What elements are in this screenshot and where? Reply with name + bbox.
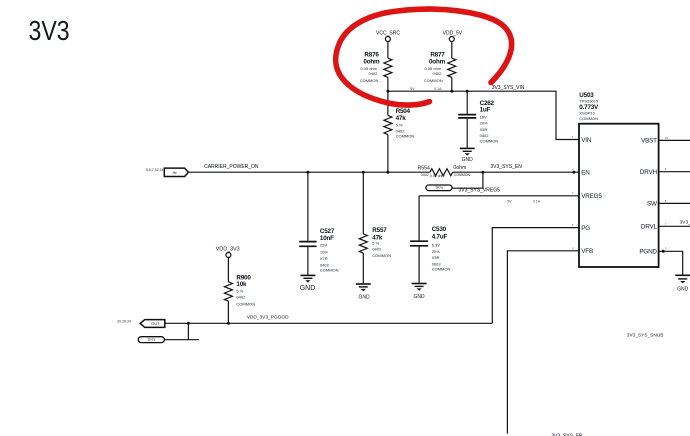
resistor R557 bbox=[359, 172, 391, 283]
wire VDD_3V3_PGOOD bbox=[165, 315, 493, 324]
junction at EN pin bbox=[573, 171, 576, 174]
svg-text:3V3_SYS_EN: 3V3_SYS_EN bbox=[490, 164, 522, 170]
svg-text:VCC_SRC: VCC_SRC bbox=[376, 31, 400, 37]
testpoint TP74 bbox=[426, 185, 452, 191]
svg-text:XSOP10: XSOP10 bbox=[579, 111, 595, 116]
pin VREG5 bbox=[572, 191, 602, 200]
svg-text:0.1A: 0.1A bbox=[533, 199, 541, 203]
resistor R877 bbox=[424, 51, 456, 83]
svg-text:VFB: VFB bbox=[581, 248, 593, 255]
svg-text:OUT: OUT bbox=[151, 321, 160, 326]
svg-text:10nF: 10nF bbox=[320, 235, 334, 242]
svg-text:5 %: 5 % bbox=[396, 123, 403, 128]
svg-text:X7R: X7R bbox=[320, 256, 328, 261]
svg-text:25V: 25V bbox=[320, 242, 327, 247]
svg-text:0402: 0402 bbox=[480, 133, 490, 138]
svg-text:IN: IN bbox=[173, 170, 177, 175]
svg-text:X5R: X5R bbox=[480, 127, 488, 132]
IC U503 ref labels bbox=[579, 92, 599, 121]
wire VREG5 line bbox=[419, 196, 579, 204]
wire R877 to rail bbox=[451, 77, 453, 91]
svg-text:0.1A: 0.1A bbox=[434, 87, 442, 91]
svg-text:0.05 ohm: 0.05 ohm bbox=[430, 174, 445, 178]
svg-text:R554: R554 bbox=[417, 165, 430, 171]
ground for C530 bbox=[412, 284, 427, 301]
svg-text:5V: 5V bbox=[410, 87, 415, 91]
capacitor C262 bbox=[458, 91, 498, 147]
resistor R876 bbox=[360, 51, 392, 83]
wire 3V3_SYS_VIN rail bbox=[388, 85, 579, 140]
svg-text:TP74: TP74 bbox=[435, 186, 443, 190]
svg-text:GND: GND bbox=[300, 285, 316, 292]
svg-text:EN: EN bbox=[581, 169, 590, 176]
ground for C262 bbox=[460, 148, 475, 163]
wire VFB net bbox=[507, 251, 579, 434]
pin VIN bbox=[572, 135, 592, 144]
svg-text:DRVH: DRVH bbox=[640, 169, 658, 176]
svg-text:3V3_SYS_SNUB: 3V3_SYS_SNUB bbox=[627, 332, 664, 338]
IC U1 box U503 bbox=[579, 124, 659, 267]
svg-text:VDD_3V3: VDD_3V3 bbox=[216, 246, 240, 252]
pin DRVL bbox=[641, 220, 690, 231]
svg-text:20%: 20% bbox=[480, 121, 488, 126]
resistor R900 bbox=[224, 258, 255, 324]
svg-text:3V3_SYS_VIN: 3V3_SYS_VIN bbox=[492, 85, 525, 91]
svg-text:5,6,7,32,34: 5,6,7,32,34 bbox=[146, 168, 164, 172]
svg-text:COMMON: COMMON bbox=[396, 134, 415, 139]
pin DRVH bbox=[640, 167, 690, 176]
svg-text:3V3_SYS_SW: 3V3_SYS_SW bbox=[680, 220, 690, 226]
svg-text:GND: GND bbox=[462, 157, 474, 163]
svg-text:C530: C530 bbox=[432, 226, 447, 233]
svg-text:COMMON: COMMON bbox=[424, 78, 443, 83]
svg-text:X5R: X5R bbox=[432, 255, 440, 260]
pin EN bbox=[572, 168, 590, 177]
svg-text:R557: R557 bbox=[372, 227, 387, 234]
power terminal VDD_3V3 bbox=[216, 246, 240, 257]
ground for C527 bbox=[300, 275, 316, 292]
svg-text:R504: R504 bbox=[396, 108, 411, 115]
svg-text:COMMON: COMMON bbox=[480, 139, 499, 144]
junction R554/TP74 bbox=[481, 171, 484, 174]
junction rail/R877 bbox=[450, 90, 453, 93]
title 3V3 bbox=[29, 16, 70, 46]
svg-text:SW: SW bbox=[647, 201, 657, 208]
pin SW bbox=[647, 199, 690, 208]
ground for PGND bbox=[675, 275, 690, 292]
svg-text:0402: 0402 bbox=[368, 71, 378, 76]
svg-text:0402: 0402 bbox=[421, 173, 429, 177]
pin VFB bbox=[572, 246, 593, 255]
pin PG bbox=[572, 223, 590, 232]
svg-text:GND: GND bbox=[359, 294, 371, 300]
power terminal VCC_SRC bbox=[376, 31, 400, 42]
svg-text:COMMON: COMMON bbox=[320, 268, 339, 273]
svg-text:GND: GND bbox=[414, 294, 426, 300]
svg-text:TPS53015: TPS53015 bbox=[579, 99, 599, 104]
svg-text:VREG5: VREG5 bbox=[581, 193, 602, 200]
junction R504 bottom bbox=[386, 171, 389, 174]
svg-text:0ohm: 0ohm bbox=[429, 59, 446, 66]
svg-text:0402: 0402 bbox=[372, 246, 382, 251]
svg-text:5V: 5V bbox=[507, 199, 512, 203]
svg-text:VDD_3V3_PGOOD: VDD_3V3_PGOOD bbox=[247, 315, 289, 321]
resistor R504 bbox=[384, 91, 414, 172]
svg-text:DRVL: DRVL bbox=[641, 224, 658, 231]
svg-text:CARRIER_POWER_ON: CARRIER_POWER_ON bbox=[204, 164, 259, 170]
svg-text:5 %: 5 % bbox=[236, 288, 243, 293]
red annotation ellipse bbox=[336, 9, 512, 105]
svg-text:VBST: VBST bbox=[641, 138, 657, 145]
svg-text:20,28,34: 20,28,34 bbox=[117, 320, 131, 324]
wire PG net bbox=[492, 228, 579, 324]
svg-text:COMMON: COMMON bbox=[236, 301, 255, 306]
junction TP73 bbox=[187, 322, 190, 325]
svg-text:R876: R876 bbox=[364, 51, 379, 58]
power terminal VDD_5V bbox=[443, 31, 463, 42]
wire R876 to rail bbox=[387, 77, 389, 91]
port IN bbox=[164, 168, 188, 176]
pin VBST bbox=[641, 136, 690, 145]
svg-text:VIN: VIN bbox=[581, 137, 592, 144]
svg-text:5 %: 5 % bbox=[372, 240, 379, 245]
svg-text:0402: 0402 bbox=[236, 295, 246, 300]
ground for R557 bbox=[356, 284, 371, 300]
svg-text:TP73: TP73 bbox=[147, 338, 155, 342]
wire VDD_5V to R877 bbox=[451, 42, 453, 59]
svg-text:47k: 47k bbox=[396, 115, 407, 122]
capacitor C527 bbox=[299, 172, 338, 274]
svg-text:R877: R877 bbox=[430, 51, 445, 58]
wire 3V3_SYS_EN bbox=[483, 164, 579, 172]
junction C527 top bbox=[306, 171, 309, 174]
svg-text:20%: 20% bbox=[432, 249, 440, 254]
svg-text:VDD_5V: VDD_5V bbox=[443, 31, 463, 37]
pin PGND wire to ground bbox=[639, 247, 682, 275]
svg-text:0ohm: 0ohm bbox=[453, 165, 466, 171]
wire TP73 drop bbox=[164, 323, 199, 339]
capacitor C530 bbox=[410, 196, 450, 283]
wire TP74 drop bbox=[452, 172, 483, 188]
svg-text:PGND: PGND bbox=[639, 248, 657, 255]
svg-text:3V3_SYS_VREG5: 3V3_SYS_VREG5 bbox=[459, 187, 501, 193]
svg-text:COMMON: COMMON bbox=[360, 78, 379, 83]
svg-text:COMMON: COMMON bbox=[372, 253, 391, 258]
svg-text:COMMON: COMMON bbox=[454, 173, 471, 177]
svg-text:10k: 10k bbox=[236, 281, 247, 288]
wire VCC_SRC to R876 bbox=[387, 42, 389, 59]
svg-text:COMMON: COMMON bbox=[432, 267, 451, 272]
svg-text:16V: 16V bbox=[480, 114, 487, 119]
svg-text:0ohm: 0ohm bbox=[363, 59, 380, 66]
junction rail/C262 bbox=[466, 90, 469, 93]
testpoint TP73 bbox=[138, 337, 164, 343]
svg-text:10: 10 bbox=[665, 136, 669, 140]
resistor R554 bbox=[417, 165, 482, 178]
junction R900 bottom bbox=[227, 322, 230, 325]
svg-text:3V3: 3V3 bbox=[29, 16, 70, 46]
junction rail/R876 bbox=[386, 90, 389, 93]
svg-text:1uF: 1uF bbox=[480, 106, 491, 113]
svg-text:10%: 10% bbox=[320, 249, 328, 254]
svg-text:4.7uF: 4.7uF bbox=[432, 233, 448, 240]
svg-text:PG: PG bbox=[581, 225, 590, 232]
svg-text:6.3V: 6.3V bbox=[432, 243, 441, 248]
wire CARRIER_POWER_ON bbox=[188, 164, 430, 172]
svg-text:GND: GND bbox=[677, 287, 689, 293]
svg-text:COMMON: COMMON bbox=[579, 116, 598, 121]
port OUT bbox=[140, 320, 165, 328]
junction R557 top bbox=[362, 171, 365, 174]
svg-text:0402: 0402 bbox=[432, 71, 442, 76]
